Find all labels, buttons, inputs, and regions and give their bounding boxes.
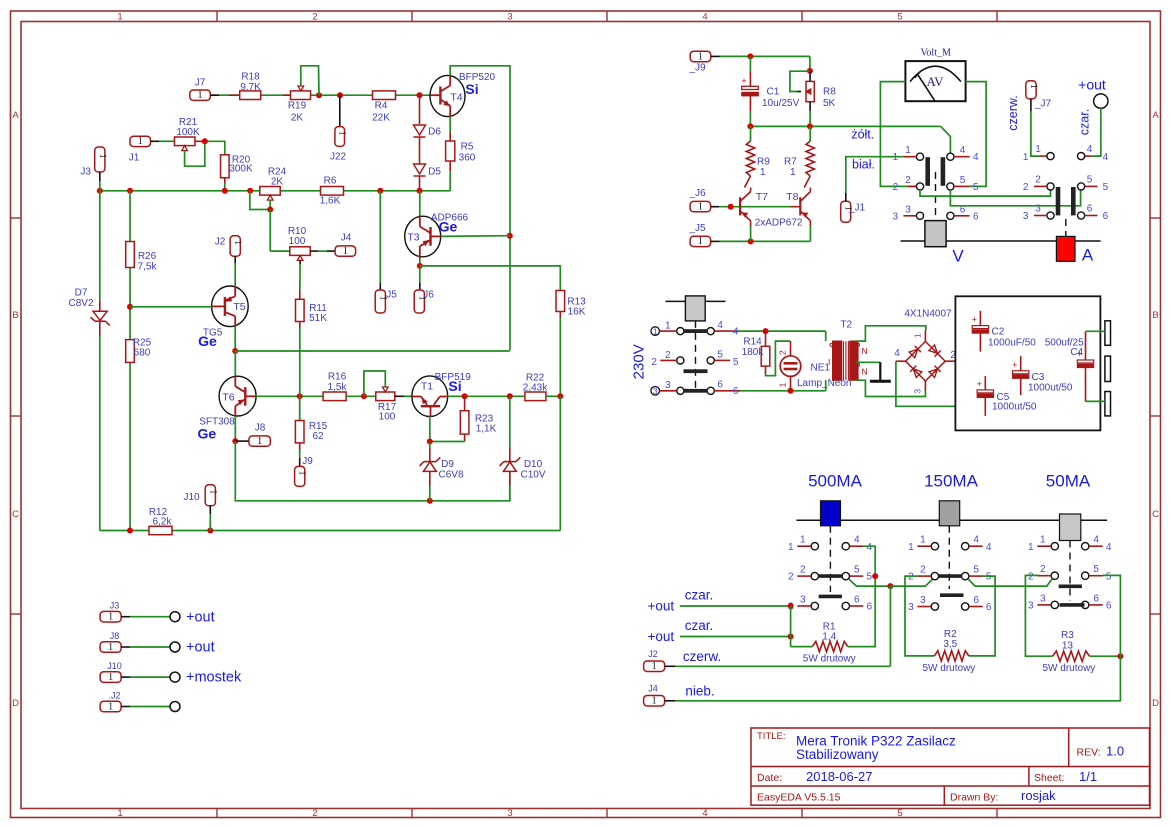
wire meter left to V-switch pin2 (880, 82, 916, 187)
wire R10 to J4 (310, 250, 318, 252)
svg-text:rosjak: rosjak (1021, 788, 1056, 803)
resistor R13 (556, 291, 565, 312)
transistor T6 (219, 376, 256, 416)
svg-text:4: 4 (960, 145, 966, 156)
svg-text:1: 1 (117, 12, 122, 23)
border column ticks bottom (216, 809, 218, 818)
svg-text:1: 1 (1040, 535, 1046, 546)
svg-text:żółt.: żółt. (851, 128, 874, 142)
terminal circle +out (1094, 94, 1108, 108)
svg-text:T4: T4 (450, 92, 462, 104)
svg-text:2K: 2K (291, 113, 304, 124)
fuse body 150MA gray (939, 501, 959, 526)
junction D9 bottom (427, 498, 433, 504)
junction T5 bottom (232, 348, 238, 354)
wire J5 row (720, 240, 811, 242)
connector _J7 (1026, 81, 1036, 99)
wire bus to T3 (419, 191, 421, 217)
svg-text:6: 6 (867, 602, 873, 613)
svg-text:50MA: 50MA (1046, 472, 1091, 491)
svg-text:1: 1 (893, 152, 899, 163)
wire J6 to T7/T8 bases (719, 206, 791, 208)
switch SW-50MA ticks and numbers (1037, 545, 1051, 547)
svg-text:+out: +out (186, 640, 215, 656)
svg-text:D6: D6 (428, 127, 441, 138)
wire C4 bottom to pad3 (1086, 400, 1105, 402)
svg-text:C10V: C10V (520, 470, 545, 481)
junction T4 base / D6 (417, 92, 423, 98)
svg-text:biał.: biał. (852, 158, 875, 172)
svg-text:1,5k: 1,5k (328, 382, 348, 393)
svg-text:2: 2 (777, 350, 787, 355)
wire bridge pin4 to cap box (896, 361, 956, 406)
junction J6 wire (728, 204, 734, 210)
dashed actuator SW3 (1069, 541, 1071, 602)
svg-text:1: 1 (1028, 84, 1038, 89)
A meter body red (1056, 236, 1075, 261)
svg-text:T7: T7 (756, 191, 768, 203)
svg-text:D: D (1152, 698, 1159, 709)
svg-text:5: 5 (897, 808, 902, 819)
connector J4 output (644, 696, 665, 707)
wire zolt bus (750, 125, 940, 127)
svg-text:_J6: _J6 (688, 188, 706, 199)
svg-text:T2: T2 (840, 319, 852, 330)
diode D5 (419, 138, 421, 164)
svg-text:4: 4 (854, 535, 860, 546)
wire R21 right to R20 (195, 140, 205, 142)
capacitor C3 (1020, 356, 1022, 371)
svg-text:czar.: czar. (685, 588, 714, 603)
svg-text:czerw.: czerw. (683, 649, 721, 664)
svg-text:Si: Si (465, 81, 478, 97)
svg-text:2: 2 (1028, 571, 1034, 582)
wire T6 base to R11 rail (256, 395, 323, 397)
svg-text:czar.: czar. (685, 618, 714, 633)
wire J8 node down to inner bottom wire (235, 441, 510, 501)
svg-text:1: 1 (97, 154, 107, 159)
svg-text:6: 6 (854, 595, 860, 606)
svg-text:N: N (862, 367, 868, 377)
neon lamp NE1 (790, 341, 792, 356)
junction T3 base on rail (507, 233, 513, 239)
junction bus R20 (222, 188, 228, 194)
potentiometer R10 (290, 247, 310, 256)
wire T5 emitter to node (234, 327, 236, 352)
svg-text:D9: D9 (441, 459, 454, 470)
resistor R9 (750, 126, 752, 141)
svg-text:+: + (977, 379, 982, 389)
wire R24 branch down to R10 (269, 210, 271, 252)
svg-text:300K: 300K (229, 164, 253, 175)
wire R17 to T1 (395, 395, 404, 397)
svg-text:2: 2 (1040, 564, 1046, 575)
svg-text:1: 1 (108, 642, 113, 653)
switch SW-V dashed actuator (935, 172, 937, 221)
svg-text:4: 4 (973, 152, 979, 163)
junction R8 top (807, 68, 813, 74)
capacitor box enclosure (955, 296, 1100, 430)
svg-text:3: 3 (1023, 211, 1029, 222)
connector J22 (339, 95, 341, 126)
wire nieb vertical to pin5 (1103, 575, 1121, 656)
connector J2 output (644, 661, 665, 672)
fuse body 50MA lightgray (1060, 514, 1081, 541)
svg-text:1: 1 (197, 90, 202, 101)
connector J1 (130, 136, 151, 146)
wire R1 right to pin4 (848, 546, 875, 646)
svg-text:3: 3 (665, 380, 671, 391)
svg-text:2: 2 (312, 808, 317, 819)
wire czerw J7 to pin1 (1030, 99, 1032, 112)
svg-text:R19: R19 (288, 101, 307, 112)
wire T5 base (130, 306, 212, 308)
svg-text:_J1: _J1 (848, 203, 866, 214)
svg-text:6: 6 (986, 602, 992, 613)
svg-text:680: 680 (134, 348, 151, 359)
junction bus J10 (207, 528, 213, 534)
junction bus D5-T3 (417, 188, 423, 194)
svg-text:_J5: _J5 (688, 223, 706, 234)
diode D6 (419, 95, 421, 124)
svg-text:1,1K: 1,1K (476, 424, 497, 435)
bridge diode D-d (929, 366, 941, 378)
switch SW-A pins (1047, 153, 1054, 160)
svg-text:J3: J3 (110, 601, 120, 611)
svg-text:5: 5 (717, 349, 723, 360)
wire R3 right leg (1090, 655, 1121, 657)
wire inter-switch 1-2 (890, 579, 932, 586)
switch SW-V bars (925, 157, 930, 186)
svg-text:5W drutowy: 5W drutowy (923, 663, 976, 674)
svg-text:51K: 51K (309, 313, 327, 324)
bridge diode D-c (910, 366, 922, 378)
switch SW-500MA ticks and numbers (797, 545, 811, 547)
junction bus R26 rail (127, 188, 133, 194)
svg-text:T6: T6 (222, 392, 234, 404)
connector J2 (left) (230, 236, 240, 256)
junction NE1 bottom (788, 388, 794, 394)
svg-text:C8V2: C8V2 (68, 298, 93, 309)
wire pin5 diagonal to czerw node (849, 579, 890, 586)
wire J2 to T5 (234, 256, 236, 263)
svg-text:2: 2 (1023, 182, 1029, 193)
svg-text:A: A (1082, 246, 1094, 265)
resistor R3 (1053, 651, 1090, 661)
svg-text:C: C (1152, 509, 1159, 520)
wire czerw row (675, 665, 890, 667)
svg-text:1: 1 (651, 696, 656, 707)
wire R16 to R17 (346, 395, 376, 397)
svg-text:4: 4 (717, 320, 723, 331)
svg-text:J6: J6 (423, 290, 434, 301)
junction bus R24 (247, 188, 253, 194)
resistor R5 (449, 117, 451, 133)
svg-text:1: 1 (698, 236, 703, 247)
svg-text:1: 1 (760, 167, 766, 178)
svg-text:5: 5 (854, 565, 860, 576)
svg-text:1: 1 (777, 382, 787, 387)
wire rail to bottom bus (559, 396, 561, 530)
svg-text:2K: 2K (271, 177, 284, 188)
svg-text:J4: J4 (341, 233, 352, 244)
wire R10 wiper to R11 (299, 260, 301, 264)
svg-text:100: 100 (379, 412, 396, 423)
svg-text:+out: +out (1078, 77, 1106, 93)
svg-text:_J9: _J9 (688, 63, 706, 74)
svg-text:1: 1 (790, 167, 796, 178)
bridge diode D-b (929, 345, 941, 357)
svg-text:J3: J3 (80, 167, 91, 178)
connector J6 (left) (414, 290, 424, 313)
svg-text:5: 5 (973, 182, 979, 193)
wire T5 node to right rail (235, 350, 510, 352)
svg-text:R8: R8 (823, 86, 836, 97)
svg-text:B: B (1152, 310, 1158, 321)
svg-text:500uf/25: 500uf/25 (1045, 338, 1084, 349)
svg-text:czar.: czar. (1078, 109, 1092, 135)
svg-text:D5: D5 (428, 167, 441, 178)
resistor R15 (299, 396, 301, 420)
svg-text:230V: 230V (631, 344, 648, 379)
svg-text:6: 6 (1087, 204, 1093, 215)
svg-text:J1: J1 (129, 153, 140, 164)
svg-text:2018-06-27: 2018-06-27 (806, 769, 873, 784)
meter Volt_M (905, 61, 965, 101)
capacitor C5 (984, 376, 986, 390)
connector J8 output row (100, 642, 121, 653)
junction czar row1 (788, 603, 794, 609)
wire T3 to R13 top (420, 266, 561, 291)
junction bus J3 (97, 188, 103, 194)
svg-text:+: + (1012, 360, 1017, 370)
junction T7 emitter (748, 238, 754, 244)
svg-text:1: 1 (117, 808, 122, 819)
junction R22-R13 rail (557, 393, 563, 399)
svg-text:5: 5 (960, 175, 966, 186)
svg-text:6,2k: 6,2k (153, 517, 173, 528)
zener diode D9 (429, 442, 431, 449)
switch SW-V pin ticks (903, 156, 916, 158)
connector J4 (335, 246, 356, 256)
svg-text:D: D (12, 698, 19, 709)
svg-text:100: 100 (289, 236, 306, 247)
resistor R1 (812, 641, 848, 651)
svg-text:2: 2 (1035, 175, 1041, 186)
border column ticks top (216, 11, 218, 22)
wire R2 right leg (969, 576, 995, 656)
svg-text:1: 1 (653, 327, 658, 337)
svg-text:3: 3 (920, 595, 926, 606)
svg-text:1000ut/50: 1000ut/50 (1028, 383, 1073, 394)
svg-text:2: 2 (800, 565, 806, 576)
svg-text:1000uF/50: 1000uF/50 (988, 338, 1036, 349)
connector J3 output row (100, 611, 121, 622)
svg-text:3: 3 (893, 211, 899, 222)
transistor T1 (412, 376, 448, 417)
svg-text:5W drutowy: 5W drutowy (1043, 663, 1096, 674)
svg-text:2: 2 (893, 182, 899, 193)
svg-text:1: 1 (665, 320, 671, 331)
svg-text:4: 4 (733, 327, 739, 338)
svg-text:B: B (12, 310, 18, 321)
junction T1 emitter-D9 (427, 439, 433, 445)
svg-text:Ge: Ge (439, 219, 458, 235)
svg-text:I: I (828, 357, 830, 367)
svg-text:Ge: Ge (198, 333, 217, 349)
junction T5 base tap (127, 304, 133, 310)
svg-text:T3: T3 (407, 232, 419, 244)
svg-text:R4: R4 (375, 101, 388, 112)
resistor R25 (126, 340, 135, 363)
svg-text:1: 1 (1023, 152, 1029, 163)
svg-text:5: 5 (986, 572, 992, 583)
wire T4 collector to right rail (450, 66, 510, 351)
svg-text:C4: C4 (1070, 347, 1083, 358)
wire T2 secondary top to bridge pin1 (856, 326, 926, 341)
svg-text:3: 3 (905, 204, 911, 215)
junction R3 right nieb (1117, 653, 1123, 659)
transistor T4 (430, 75, 465, 116)
svg-text:1: 1 (108, 612, 113, 623)
wire left rail D7 (99, 191, 101, 301)
svg-text:6: 6 (1093, 593, 1099, 604)
svg-text:1: 1 (788, 542, 794, 553)
wire fuse baseline (796, 519, 1107, 521)
svg-text:A: A (1152, 110, 1159, 121)
svg-text:1: 1 (908, 542, 914, 553)
svg-text:R6: R6 (324, 176, 337, 187)
svg-text:9,7K: 9,7K (240, 82, 261, 93)
junction C1 top (747, 53, 753, 59)
capacitor box pads (1105, 321, 1111, 346)
wire net J7-R18-R19-R4-T4 top row (210, 94, 240, 96)
svg-text:J8: J8 (255, 423, 266, 434)
switch SW-500MA pins (811, 543, 818, 550)
svg-text:4: 4 (1106, 542, 1112, 553)
svg-text:3,5: 3,5 (943, 639, 957, 650)
svg-text:2: 2 (312, 12, 317, 23)
connector _J1 (841, 201, 851, 222)
svg-text:R18: R18 (241, 72, 260, 83)
svg-text:1: 1 (232, 240, 242, 245)
V meter body (925, 221, 946, 247)
svg-text:5: 5 (1093, 564, 1099, 575)
svg-text:5: 5 (1087, 175, 1093, 186)
switch SW-230 dashed actuator (695, 321, 697, 388)
svg-text:TITLE:: TITLE: (757, 731, 786, 742)
svg-text:J10: J10 (107, 661, 122, 671)
svg-text:3: 3 (913, 389, 923, 394)
svg-text:Stabilizowany: Stabilizowany (796, 747, 879, 762)
capacitor C4 (1085, 331, 1087, 360)
wire T2 center tap to ground (856, 361, 881, 363)
svg-text:5: 5 (1103, 182, 1109, 193)
svg-text:nieb.: nieb. (685, 683, 714, 698)
connector J10 output row (100, 672, 121, 683)
svg-text:2: 2 (665, 350, 671, 361)
svg-text:1: 1 (297, 471, 307, 476)
switch SW-230 pins (677, 328, 684, 335)
svg-text:J22: J22 (330, 152, 347, 163)
connector J9 (left) (295, 466, 305, 486)
svg-text:6: 6 (973, 211, 979, 222)
svg-text:5K: 5K (823, 98, 836, 109)
capacitor C2 (979, 311, 981, 326)
capacitor C1 (749, 56, 751, 71)
junction T6 base R11-R15 (297, 393, 303, 399)
switch SW-A dashed actuator (1065, 219, 1067, 236)
wire R21 loop (185, 141, 205, 166)
transistor T5 (212, 286, 249, 327)
svg-text:V: V (952, 247, 964, 266)
svg-text:Si: Si (448, 378, 461, 394)
svg-text:+: + (972, 315, 977, 325)
svg-text:1: 1 (108, 672, 113, 683)
switch SW-V pins (916, 153, 923, 160)
zener diode D10 (509, 396, 511, 448)
svg-text:6: 6 (973, 595, 979, 606)
svg-text:6: 6 (717, 380, 723, 391)
switch SW-230 body (665, 300, 685, 302)
wire R2 left leg (905, 576, 934, 656)
svg-text:5W drutowy: 5W drutowy (803, 654, 856, 665)
resistor R6 (321, 187, 344, 196)
border row ticks left (11, 217, 22, 219)
svg-text:.J2: .J2 (108, 690, 120, 700)
resistor R7 (809, 126, 811, 141)
svg-text:+out: +out (186, 609, 215, 625)
switch SW-150MA ticks and numbers (917, 545, 931, 547)
junction R8 bottom (807, 123, 813, 129)
connector _J9 (690, 51, 711, 61)
svg-text:1,4: 1,4 (822, 632, 836, 643)
potentiometer R24 (260, 187, 280, 196)
svg-text:1: 1 (698, 201, 703, 212)
svg-text:+: + (741, 76, 746, 86)
svg-text:100K: 100K (176, 127, 200, 138)
junction czerw node (887, 583, 893, 589)
wire R24 wiper loop (250, 191, 270, 210)
svg-text:3: 3 (507, 12, 512, 23)
potentiometer R17 (376, 392, 395, 401)
svg-text:C: C (12, 509, 19, 520)
svg-text:T5: T5 (233, 301, 245, 313)
svg-text:360: 360 (459, 153, 476, 164)
svg-text:1: 1 (1028, 542, 1034, 553)
svg-text:4: 4 (986, 542, 992, 553)
svg-text:T1: T1 (421, 381, 433, 393)
switch SW-230 bars (684, 329, 708, 333)
svg-text:C2: C2 (992, 327, 1005, 338)
svg-text:1000ut/50: 1000ut/50 (992, 402, 1037, 413)
svg-text:1/1: 1/1 (1079, 769, 1097, 784)
svg-text:2: 2 (905, 175, 911, 186)
bridge diode D-a (909, 346, 921, 358)
connector J10 (left) (205, 485, 215, 506)
switch SW-500MA bars (818, 574, 843, 578)
wire V-A baseline (901, 240, 1101, 242)
svg-text:4X1N4007: 4X1N4007 (904, 308, 952, 319)
switch SW-150MA pins (931, 543, 938, 550)
potentiometer R21 (174, 137, 195, 146)
svg-text:13: 13 (1062, 641, 1074, 652)
svg-text:A: A (12, 110, 19, 121)
svg-text:2: 2 (651, 357, 657, 368)
svg-text:1: 1 (651, 661, 656, 672)
svg-text:3: 3 (653, 386, 658, 396)
svg-text:D10: D10 (524, 459, 543, 470)
